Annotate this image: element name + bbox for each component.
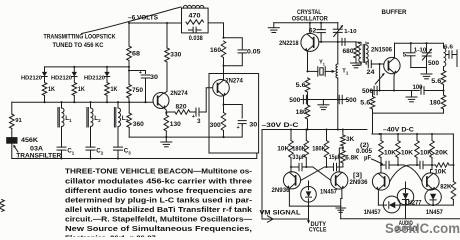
- junction top rail 5cap: [410, 42, 412, 44]
- svg-text:THREE-TONE VEHICLE BEACON—Mult: THREE-TONE VEHICLE BEACON—Multitone os-: [65, 167, 252, 176]
- svg-text:680: 680: [343, 48, 355, 55]
- wire Q8 emitter: [432, 188, 434, 191]
- junction tank bus x145: [144, 101, 146, 103]
- label TRANSMITTING LOOPSTICK line1: [44, 34, 116, 41]
- wire xfmr prim top: [356, 42, 361, 45]
- junction collector node: [222, 65, 224, 67]
- value 10K A: [384, 149, 397, 156]
- wire feedback row: [301, 99, 324, 101]
- wire trimmer row: [411, 67, 427, 69]
- svg-text:CYCLE: CYCLE: [309, 227, 327, 234]
- value 160: [210, 47, 222, 54]
- wire xfmr sec top: [365, 42, 367, 45]
- junction -6V at 68 column: [128, 22, 130, 24]
- xfmr phase dot left: [358, 42, 360, 44]
- label Q2 2N274: [225, 78, 243, 85]
- junction -40 rail left: [378, 133, 380, 135]
- wire 30 cap module branch: [224, 105, 243, 119]
- svg-text:determined by plug-in L-C tank: determined by plug-in L-C tanks used in …: [65, 195, 253, 204]
- transistor Q3 2N2218: [301, 33, 319, 51]
- value 180K 2: [312, 146, 326, 153]
- wire -6V feed: [129, 22, 182, 24]
- svg-text:different audio tones whose fr: different audio tones whose frequencies …: [65, 186, 252, 195]
- label 03A: [30, 146, 44, 153]
- ground under rail: [161, 137, 172, 147]
- label 2N1506: [371, 47, 393, 54]
- value 10K output: [434, 168, 447, 175]
- value 62: [309, 28, 317, 34]
- diode 1N457 (circled, left): [383, 196, 400, 213]
- label 0.005: [356, 148, 373, 155]
- svg-text:82K: 82K: [440, 184, 452, 191]
- label (2): [360, 143, 369, 149]
- svg-text:2N274: 2N274: [225, 78, 243, 85]
- svg-text:1-10: 1-10: [344, 29, 357, 35]
- label C1: [67, 147, 74, 155]
- plug-in module box outline: [209, 74, 259, 154]
- label 1N277: [405, 200, 423, 207]
- capacitor 500 (osc left): [303, 95, 306, 104]
- svg-text:1N457: 1N457: [426, 209, 444, 216]
- svg-text:circuit.—R. Stapelfeldt, Multi: circuit.—R. Stapelfeldt, Multitone Oscil…: [65, 214, 252, 223]
- capacitor 100: [421, 87, 444, 95]
- wire 3K to Q6 collector: [339, 148, 343, 172]
- watermark SeekIC.com: [385, 220, 460, 236]
- wire buffer mid row: [370, 90, 419, 92]
- wire emitter ground rail: [129, 125, 242, 137]
- capacitor C1: [57, 145, 66, 159]
- value 6.6: [444, 44, 453, 50]
- value 1K #2: [78, 87, 86, 93]
- transfilter 456K body: [6, 129, 17, 159]
- value 24: [367, 69, 376, 76]
- junction -30 rail x326: [325, 128, 327, 130]
- svg-text:Electronics, 36:1, p 86-87.: Electronics, 36:1, p 86-87.: [65, 234, 158, 237]
- trimmer capacitor 1-10 (osc): [333, 23, 343, 42]
- junction bottom bus x90: [89, 157, 91, 159]
- resistor 10K (B): [396, 134, 401, 165]
- svg-text:+: +: [139, 70, 142, 76]
- wire 5.6 top jog: [372, 91, 374, 94]
- resistor 6.8K: [341, 148, 346, 167]
- transistor Q7 2N936: [372, 173, 389, 190]
- inductor L3: [114, 102, 120, 145]
- cross wire B: [301, 167, 325, 180]
- xfmr phase dot right: [367, 42, 369, 44]
- diode 1N457 (circled, right): [425, 189, 441, 205]
- buffer xfmr secondary: [363, 45, 368, 63]
- svg-text:T1: T1: [342, 68, 349, 75]
- cross wire C: [400, 165, 422, 182]
- junction bottom bus x61: [60, 157, 62, 159]
- junction diode bus 2: [73, 66, 75, 68]
- inductor L1: [58, 102, 64, 145]
- capacitor 0.038 plates: [189, 27, 202, 33]
- svg-text:68: 68: [132, 51, 141, 58]
- label DUTY: [311, 221, 327, 228]
- capacitor C3: [114, 145, 123, 159]
- wire Q6 emitter to vert: [341, 199, 342, 207]
- junction 180 row: [442, 89, 444, 91]
- value 500 osc left: [289, 97, 301, 104]
- ground under 680: [351, 58, 362, 68]
- resistor 130: [164, 113, 169, 137]
- svg-text:1N457: 1N457: [364, 209, 382, 216]
- label Y1: [319, 60, 326, 67]
- junction bottom bus x117.5: [117, 157, 119, 159]
- value 750: [132, 87, 144, 94]
- svg-text:1K: 1K: [48, 87, 56, 93]
- resistor 3K: [341, 130, 346, 149]
- cross wire A: [313, 167, 331, 180]
- wire Q2 collector: [223, 66, 225, 81]
- junction diode bus 3: [106, 66, 108, 68]
- svg-text:2N936: 2N936: [350, 179, 369, 186]
- transistor Q1 2N274: [153, 93, 169, 109]
- svg-text:HD2120: HD2120: [84, 76, 105, 82]
- junction 160 top: [222, 37, 224, 39]
- transistor Q2 2N274: [213, 80, 230, 97]
- resistor 20K: [430, 134, 435, 165]
- svg-text:91: 91: [15, 118, 21, 124]
- value 1K #3: [111, 87, 119, 93]
- value 680: [343, 48, 355, 55]
- svg-text:470: 470: [189, 13, 202, 20]
- svg-text:160: 160: [210, 47, 222, 54]
- diode HD2120 #2: [72, 67, 77, 82]
- resistor 180 (buffer): [441, 85, 446, 114]
- resistor 1K #1: [42, 83, 47, 103]
- resistor 160: [221, 41, 226, 66]
- label 2N2218: [279, 40, 299, 47]
- junction row at T1 col: [337, 98, 339, 100]
- ground under trimmer: [421, 68, 432, 79]
- svg-text:24: 24: [367, 69, 376, 76]
- diode HD2120 #1: [42, 67, 47, 82]
- junction 15 cap bias: [325, 166, 327, 168]
- wire T1 col to rail: [337, 100, 339, 130]
- junction diode bus right: [128, 66, 130, 68]
- svg-text:500: 500: [428, 60, 440, 67]
- svg-text:VM SIGNAL: VM SIGNAL: [260, 210, 301, 217]
- value 30 (tank): [150, 74, 159, 81]
- resistor 180K #2: [324, 130, 329, 168]
- svg-text:180K: 180K: [292, 146, 306, 153]
- value 0.038: [189, 35, 203, 42]
- svg-text:TUNED TO 456 KC: TUNED TO 456 KC: [53, 42, 104, 49]
- buffer xfmr primary: [359, 45, 361, 62]
- svg-text:330: 330: [170, 52, 182, 59]
- capacitor 0.05: [238, 50, 247, 53]
- label 2N936 (Q6): [350, 179, 369, 186]
- value 3: [197, 118, 201, 125]
- value 180 buffer: [430, 99, 442, 106]
- wire gnd col down: [340, 206, 342, 219]
- resistor 10K (C): [415, 134, 420, 165]
- diode HD2120 #3: [104, 67, 109, 82]
- capacitor output: [446, 51, 457, 59]
- svg-text:1N457: 1N457: [320, 188, 338, 195]
- label CYCLE: [309, 227, 327, 234]
- wire Q3 base row: [319, 41, 356, 43]
- wire VM signal line: [262, 218, 309, 220]
- arrow on base column: [375, 73, 384, 84]
- resistor 5.6 (buffer): [370, 94, 375, 114]
- transfilter leader arrow: [13, 145, 18, 153]
- wire xfmr prim bottom: [356, 62, 361, 65]
- wire -40 rail right edge: [452, 134, 454, 165]
- svg-text:30: 30: [150, 74, 159, 81]
- svg-text:10K: 10K: [434, 168, 447, 175]
- resistor 82K: [451, 165, 456, 205]
- svg-text:10K: 10K: [401, 149, 414, 156]
- page-edge artifact zigzag: [0, 200, 4, 212]
- svg-text:20K: 20K: [435, 149, 449, 156]
- capacitor 15uF: [325, 163, 343, 171]
- svg-text:1K: 1K: [78, 87, 86, 93]
- wire Q1 collector: [164, 62, 167, 93]
- wire Q7 emitter: [377, 190, 379, 206]
- ground buffer mid: [406, 91, 417, 102]
- wire right bus segA: [378, 204, 383, 206]
- wire bottom out line: [341, 218, 460, 220]
- caption line 6: [65, 214, 252, 223]
- wire base column: [379, 64, 381, 91]
- net label -40V D-C: [383, 127, 414, 134]
- value 1K #1: [48, 87, 56, 93]
- junction cap row collector A: [380, 164, 382, 166]
- svg-text:New Source of Simultaneous Fre: New Source of Simultaneous Frequencies,: [65, 224, 252, 233]
- plug-in tank box outline: [182, 8, 209, 33]
- caption line 2: [65, 176, 252, 185]
- wire buffer top rail: [395, 42, 444, 44]
- wire xfmr sec bottom: [365, 62, 368, 64]
- junction tank bus x90: [89, 101, 91, 103]
- title OSCILLATOR: [292, 15, 328, 22]
- junction base row T1: [337, 41, 339, 43]
- svg-text:300: 300: [210, 122, 222, 129]
- junction row at emitter col: [306, 98, 308, 100]
- junction -30 rail x305.8: [305, 128, 307, 130]
- value 500 osc right: [346, 97, 358, 104]
- transistor Q6 2N936: [331, 172, 348, 189]
- value 3K: [346, 136, 355, 143]
- svg-text:0.038: 0.038: [189, 35, 203, 42]
- junction 1N277 bus: [404, 204, 406, 206]
- junction Q1 emitter node: [165, 112, 167, 114]
- svg-text:5.6: 5.6: [360, 99, 371, 106]
- VM arrow chevron: [268, 216, 274, 222]
- svg-text:1N277: 1N277: [405, 200, 423, 207]
- svg-text:5.6: 5.6: [296, 82, 307, 89]
- value 500 buffer: [362, 88, 374, 95]
- junction osc 62 column: [320, 22, 322, 24]
- svg-text:10K: 10K: [277, 146, 290, 153]
- caption line 3: [65, 186, 252, 195]
- resistor 68: [127, 23, 132, 61]
- wire bus to -40 rail: [372, 113, 374, 134]
- svg-text:Y1: Y1: [319, 60, 326, 67]
- wire to Q2 base: [206, 88, 212, 112]
- resistor 470: [186, 20, 204, 24]
- leader line to loopstick: [82, 7, 182, 34]
- value 100: [413, 84, 424, 91]
- junction tank bus x128.7: [128, 101, 130, 103]
- junction -40 rail x380.5: [380, 133, 382, 135]
- svg-text:30: 30: [249, 122, 258, 129]
- transistor Q5 2N936: [283, 172, 300, 189]
- capacitor 30 (tank): [139, 70, 150, 102]
- resistor 91: [10, 102, 15, 128]
- junction base column row: [379, 89, 381, 91]
- crystal to T1 arrow: [325, 70, 335, 73]
- capacitor 0.005 A: [386, 161, 400, 169]
- wire feedback row right: [323, 99, 348, 101]
- net label -6 VOLTS: [128, 15, 159, 22]
- wire Q6 emitter: [341, 189, 343, 199]
- resistor 180 (osc): [305, 100, 310, 130]
- junction -30 rail x337.3: [337, 128, 339, 130]
- junction right col row: [452, 164, 454, 166]
- junction tank bus x73.8: [73, 101, 75, 103]
- value 10K mv1: [277, 146, 290, 153]
- wire -40V rail: [372, 133, 453, 135]
- value 82K: [440, 184, 452, 191]
- junction emitter bus diode: [307, 205, 309, 207]
- svg-text:1K: 1K: [111, 87, 119, 93]
- wire Q1 base: [152, 100, 154, 102]
- resistor 330: [165, 23, 170, 62]
- junction rail at 130: [165, 136, 167, 138]
- net label -30V D-C: [262, 122, 300, 129]
- junction crystal node: [306, 70, 308, 72]
- wire Q4 collector: [394, 43, 396, 58]
- value 30 (module): [249, 122, 258, 129]
- capacitor 33uF: [291, 163, 313, 171]
- wire Q7 collector: [380, 165, 382, 173]
- capacitor (osc-buffer coupling): [342, 38, 345, 45]
- transistor Q4 2N1506: [384, 57, 400, 73]
- svg-text:–30V D-C: –30V D-C: [262, 122, 300, 129]
- capacitor 62: [317, 23, 326, 42]
- junction bias B: [397, 164, 399, 166]
- value 6.8K: [345, 154, 359, 161]
- diode 1N277 (circled): [397, 182, 413, 205]
- label OUTPUT: [395, 226, 418, 233]
- junction osc collector: [309, 22, 311, 24]
- junction -40 rail x431.5: [431, 133, 433, 135]
- svg-text:–6 VOLTS: –6 VOLTS: [128, 15, 159, 22]
- svg-text:15µF: 15µF: [329, 155, 341, 161]
- svg-text:1-10: 1-10: [414, 47, 427, 53]
- transistor Q8 2N936: [422, 173, 439, 190]
- svg-text:33µF: 33µF: [292, 155, 305, 161]
- svg-text:0.05: 0.05: [247, 49, 261, 56]
- wire Q4 emitter: [393, 73, 396, 90]
- junction -40 rail x416.5: [416, 133, 418, 135]
- svg-text:10K: 10K: [384, 149, 397, 156]
- svg-text:0.005: 0.005: [356, 148, 373, 155]
- resistor 10K (output): [432, 163, 453, 167]
- svg-text:180: 180: [430, 99, 442, 106]
- label uF: [364, 155, 371, 161]
- wire diode bus: [45, 66, 130, 68]
- junction 33 cap collector: [290, 166, 292, 168]
- svg-text:750: 750: [132, 87, 144, 94]
- svg-text:100: 100: [413, 84, 424, 91]
- diode 1N457 (circled): [301, 181, 317, 206]
- junction Q2 emitter node: [222, 103, 224, 105]
- wire VM left column: [261, 130, 263, 220]
- value 0.05: [247, 49, 261, 56]
- label HD2120 #1: [21, 76, 42, 82]
- wire 68-750 node: [128, 61, 130, 85]
- label L1: [65, 115, 72, 123]
- label 1N457 right: [426, 209, 444, 216]
- value 180 (osc): [296, 109, 308, 116]
- svg-text:456K: 456K: [21, 137, 39, 144]
- junction tank bus x44: [43, 101, 45, 103]
- value 500 output: [428, 60, 440, 67]
- value 5.6 buffer: [360, 99, 371, 106]
- wire Q5 emitter: [288, 188, 290, 206]
- junction -40 rail x397.5: [397, 133, 399, 135]
- junction 33 cap bias: [305, 166, 307, 168]
- title CRYSTAL: [297, 9, 322, 16]
- svg-text:3: 3: [197, 118, 201, 125]
- resistor 180K #1: [304, 130, 309, 168]
- value 20K: [435, 149, 449, 156]
- label [3] bracket: [353, 173, 362, 179]
- svg-text:180: 180: [296, 109, 308, 116]
- junction 30 branch: [128, 69, 130, 71]
- resistor 360: [127, 102, 132, 137]
- junction bias C: [416, 164, 418, 166]
- svg-text:2N2218: 2N2218: [279, 40, 299, 47]
- wire right bus segB: [400, 204, 453, 206]
- capacitor 24: [368, 60, 383, 68]
- svg-text:5.6: 5.6: [431, 78, 442, 85]
- wire Q3 emitter: [306, 51, 308, 72]
- resistor 820: [166, 110, 190, 114]
- svg-text:6.8K: 6.8K: [345, 154, 359, 161]
- label TUNED TO 456 KC line2: [53, 42, 104, 49]
- label VM SIGNAL: [260, 210, 301, 217]
- wire output stub: [456, 50, 458, 67]
- label 1N457 left: [364, 209, 382, 216]
- svg-text:HD2120: HD2120: [21, 76, 42, 82]
- wire duty cycle drop: [308, 206, 310, 222]
- value 91: [15, 118, 21, 124]
- label C3: [124, 147, 131, 155]
- junction -30 rail x307: [306, 128, 308, 130]
- wire tank bus: [12, 101, 153, 103]
- value 330: [170, 52, 182, 59]
- svg-text:5: 5: [403, 52, 407, 59]
- transformer T1 winding: [336, 42, 338, 100]
- svg-text:HD2120: HD2120: [51, 76, 72, 82]
- value 360: [133, 121, 145, 128]
- value 470: [189, 13, 202, 20]
- value 5: [403, 52, 407, 59]
- inductor L2: [87, 102, 93, 145]
- resistor 1K #3: [105, 83, 110, 103]
- value 10K C: [420, 149, 433, 156]
- junction base column top: [379, 63, 381, 65]
- value 1-10 buffer: [414, 47, 427, 53]
- junction base row 62: [320, 41, 322, 43]
- junction tank bus x117.5: [117, 101, 119, 103]
